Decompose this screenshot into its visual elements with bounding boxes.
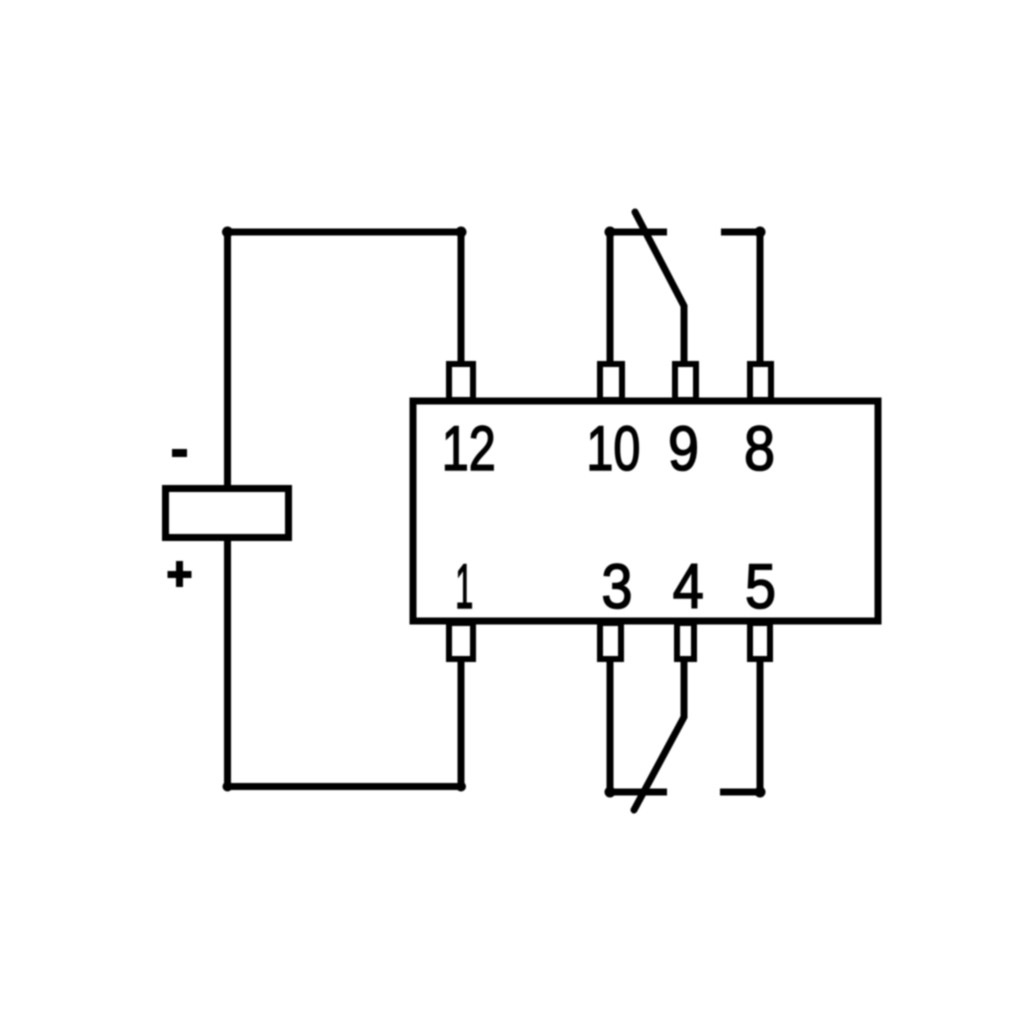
wire right vertical to pin 12 bbox=[458, 232, 465, 368]
node bottom bar left end bbox=[605, 787, 616, 798]
node contact bar left end bbox=[605, 227, 616, 238]
svg-text:12: 12 bbox=[442, 414, 496, 484]
pin 3 terminal bbox=[600, 623, 621, 659]
switch armature top (pin 9 movable contact) bbox=[635, 212, 684, 368]
pin 5 terminal bbox=[750, 623, 770, 659]
node pin-8 corner bbox=[755, 227, 766, 238]
svg-text:5: 5 bbox=[745, 552, 776, 622]
pin 10 terminal bbox=[600, 364, 622, 400]
svg-text:9: 9 bbox=[668, 414, 699, 484]
svg-text:4: 4 bbox=[673, 552, 704, 622]
node bottom-right corner junction bbox=[456, 782, 466, 792]
pin 8 terminal bbox=[750, 364, 771, 400]
svg-text:3: 3 bbox=[602, 552, 633, 622]
pin 9 terminal bbox=[675, 364, 696, 400]
wire left vertical upper (to coil top) bbox=[224, 229, 231, 489]
wire pin 5 L-shape (open contact) bbox=[720, 655, 760, 792]
coil K1 (relay coil rectangle) bbox=[166, 489, 289, 538]
polarity label plus bbox=[168, 561, 192, 587]
wire left vertical lower (coil bottom down) bbox=[224, 537, 231, 787]
relay body outline bbox=[413, 401, 878, 621]
svg-text:10: 10 bbox=[586, 414, 640, 484]
svg-text:8: 8 bbox=[744, 414, 775, 484]
switch armature bottom (pin 4 movable contact) bbox=[634, 655, 684, 810]
polarity label minus bbox=[172, 449, 187, 457]
svg-text:1: 1 bbox=[455, 552, 473, 622]
wire pin 8 L-shape (open contact) bbox=[721, 232, 760, 368]
node top-right corner junction bbox=[456, 227, 467, 238]
wire pin 3 down bbox=[607, 655, 614, 792]
wire coil-loop bottom horizontal bbox=[228, 783, 462, 790]
pin 1 terminal bbox=[449, 623, 473, 659]
node pin-5 corner bbox=[755, 787, 766, 798]
pin 12 terminal bbox=[449, 364, 473, 400]
node bottom-left corner junction bbox=[223, 782, 233, 792]
pin 4 terminal bbox=[677, 623, 694, 659]
wire pin 10 up bbox=[607, 232, 614, 368]
node top-left corner junction bbox=[222, 227, 233, 238]
wire coil-loop top horizontal (coil minus to pin 12) bbox=[228, 229, 462, 236]
contact bar NC (pin 10 fixed contact) bbox=[607, 229, 667, 236]
wire right vertical to pin 1 bbox=[458, 655, 465, 789]
contact bar bottom (pin 3 fixed contact) bbox=[607, 789, 667, 796]
